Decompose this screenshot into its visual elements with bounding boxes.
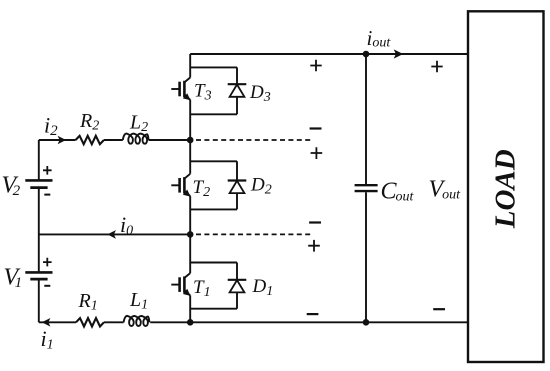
sign minus above dashed 1 bbox=[310, 127, 322, 129]
wire left column V2 top bbox=[38, 140, 40, 180]
wire dashed mid-level 1 bbox=[196, 139, 312, 141]
wire main leg segment T2-T1 bbox=[189, 196, 191, 273]
diode D3 bbox=[228, 84, 247, 97]
wire D1 branch vertical bbox=[236, 263, 238, 309]
wire T2 branch top bbox=[190, 160, 237, 162]
wire i2 branch bbox=[39, 139, 190, 141]
wire D2 branch vertical bbox=[236, 161, 238, 209]
wire left column middle bbox=[38, 188, 40, 273]
sign plus below dashed 2 bbox=[308, 240, 320, 252]
sign minus bottom-right bbox=[433, 308, 445, 310]
sign minus above dashed 2 bbox=[309, 221, 321, 223]
wire T1 branch bottom bbox=[190, 308, 237, 310]
arrow i1 bbox=[42, 318, 51, 327]
battery V2 bbox=[25, 166, 52, 195]
wire main leg lower segment bbox=[189, 295, 191, 322]
transistor T3 bbox=[171, 78, 190, 101]
resistor R1 bbox=[76, 318, 104, 326]
node L2 junction bbox=[187, 137, 194, 144]
diode D2 bbox=[228, 181, 247, 194]
transistor T1 bbox=[171, 273, 190, 296]
node bottom-leg junction bbox=[187, 319, 194, 326]
arrow iout bbox=[394, 49, 404, 58]
capacitor Cout bbox=[355, 54, 378, 322]
arrow i2 bbox=[58, 136, 66, 145]
sign minus bottom-left bbox=[307, 313, 319, 315]
battery V1 bbox=[25, 258, 52, 286]
wire top rail bbox=[190, 53, 468, 55]
wire D3 branch vertical bbox=[236, 67, 238, 114]
wire i0 bbox=[39, 233, 190, 235]
node top-cap junction bbox=[363, 51, 370, 58]
node bottom-cap junction bbox=[363, 319, 370, 326]
sign plus top-right bbox=[431, 61, 442, 72]
wire main leg upper segment bbox=[189, 54, 191, 78]
transistor T2 bbox=[171, 174, 190, 197]
wire T3 branch top bbox=[190, 66, 237, 68]
resistor R2 bbox=[76, 136, 104, 144]
wire T3 branch bottom bbox=[190, 113, 237, 115]
wire main leg segment T3-T2 bbox=[189, 100, 191, 174]
sign plus top-left bbox=[310, 60, 321, 71]
wire left column bottom bbox=[38, 279, 40, 322]
inductor L2 bbox=[123, 134, 149, 144]
arrow i0 bbox=[107, 230, 116, 239]
svg-text:LOAD: LOAD bbox=[490, 149, 522, 229]
wire T2 branch bottom bbox=[190, 208, 237, 210]
sign plus below dashed 1 bbox=[311, 147, 323, 159]
inductor L1 bbox=[124, 316, 150, 326]
wire bottom rail bbox=[39, 321, 468, 323]
wire dashed mid-level 2 bbox=[196, 233, 312, 235]
wire T1 branch top bbox=[190, 262, 237, 264]
diode D1 bbox=[228, 280, 247, 293]
node i0 junction bbox=[187, 231, 194, 238]
load box bbox=[468, 11, 544, 362]
